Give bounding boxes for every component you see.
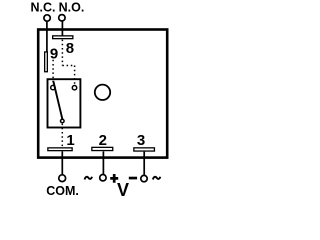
svg-text:N.C.: N.C. [31,1,56,15]
terminal circle N.O. [59,15,65,21]
dotted link to N.O. contact [74,66,76,85]
switch blade [53,81,62,119]
svg-text:N.O.: N.O. [59,1,85,15]
svg-text:3: 3 [137,132,145,149]
plus symbol [110,174,118,183]
svg-text:COM.: COM. [46,184,79,198]
wire pad 1 to COM terminal [61,151,63,174]
pad 8 [53,36,73,39]
enclosure box [38,30,167,158]
minus symbol [129,177,137,180]
pad 9 [45,52,48,72]
wire N.C. to pad 9 [46,22,48,52]
wire pad 3 to supply terminal [143,152,145,175]
dotted link pad 9 to N.C. contact [52,60,54,85]
dotted link pivot to pad 1 [61,124,63,147]
relay contact box [48,79,81,127]
ac symbol right [153,177,160,180]
svg-text:V: V [117,180,129,200]
COM terminal circle [59,175,66,182]
svg-text:1: 1 [66,132,74,149]
svg-text:9: 9 [50,46,58,63]
pad 3 [134,148,155,151]
ac symbol left [85,177,92,180]
switch pivot circle [61,119,65,123]
svg-text:8: 8 [66,40,74,57]
indicator circle [95,85,110,100]
pad 1 [48,148,72,151]
supply terminal circle 2 [100,175,106,181]
supply terminal circle 3 [141,175,147,181]
dotted link horizontal [62,65,74,67]
terminal circle N.C. [44,15,50,21]
wire pad 2 to supply terminal [102,151,104,174]
contact N.C. circle [51,85,55,89]
wire N.O. to pad 8 [61,21,63,35]
svg-text:2: 2 [99,132,107,149]
pad 2 [92,147,113,150]
dotted link pad 8 down [61,40,63,66]
contact N.O. circle [72,86,76,90]
